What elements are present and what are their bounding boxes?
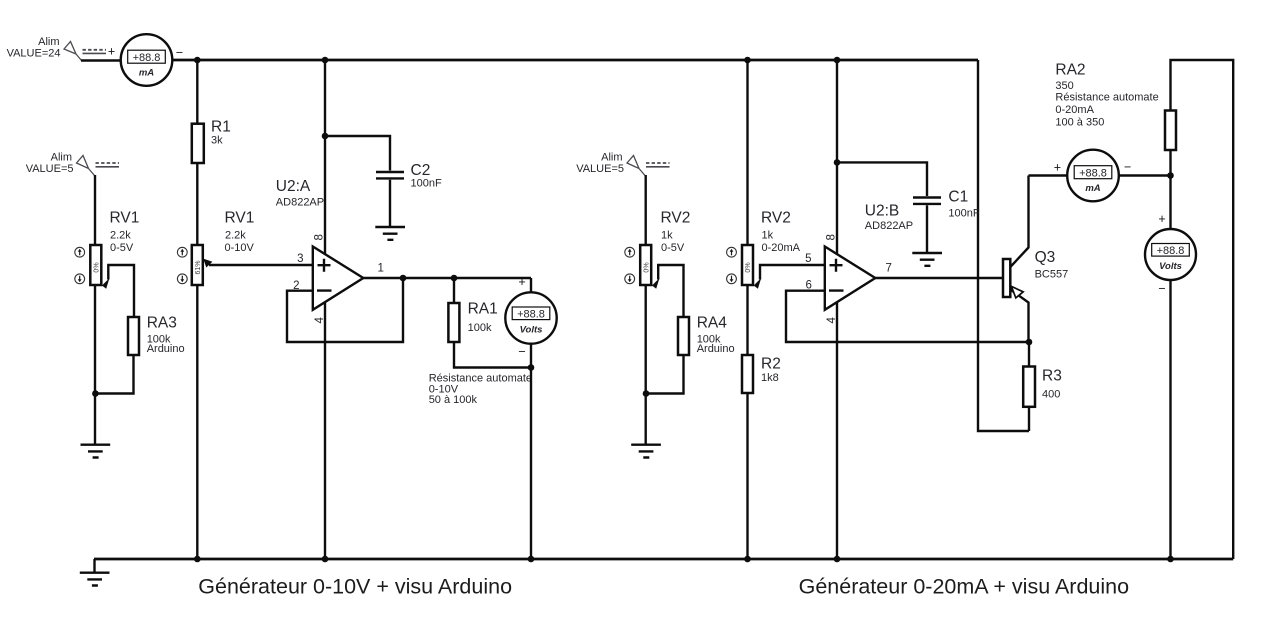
svg-text:Alim: Alim	[38, 36, 59, 48]
svg-text:BC557: BC557	[1035, 269, 1069, 281]
top +24V rail	[172, 59, 978, 62]
wire voltmeter VM1 top	[530, 278, 532, 292]
node junction Q3 emitter / R3 / feedback	[1026, 339, 1033, 346]
voltmeter VM1 (Volts)	[505, 275, 556, 359]
node junction output/RA1	[451, 275, 458, 282]
svg-text:RA2: RA2	[1055, 62, 1085, 79]
wire U2:B supply line	[836, 60, 838, 559]
svg-text:5: 5	[805, 253, 811, 265]
svg-text:1k8: 1k8	[761, 372, 779, 384]
wire R3 bottom	[1028, 407, 1030, 431]
svg-text:1k: 1k	[661, 230, 673, 242]
svg-text:+: +	[1054, 161, 1061, 175]
resistor R3	[1023, 367, 1062, 407]
svg-text:Générateur 0-20mA + visu Ardui: Générateur 0-20mA + visu Arduino	[799, 574, 1130, 598]
svg-text:Arduino: Arduino	[697, 343, 735, 355]
svg-text:3: 3	[297, 253, 303, 265]
resistor RA3	[128, 315, 185, 356]
wire RV2 bottom to ground	[645, 285, 647, 444]
node junction U2:B supply top	[834, 57, 841, 64]
svg-text:RV2: RV2	[661, 210, 691, 227]
svg-text:0%: 0%	[745, 262, 752, 272]
wire RA3 bottom to main branch	[95, 355, 134, 394]
wire RV2 wiper to RA4	[658, 265, 683, 317]
svg-text:Q3: Q3	[1035, 249, 1056, 266]
wire rail end down to R3 bottom	[978, 60, 1029, 431]
resistor RA2	[1055, 62, 1176, 151]
ammeter AM2 (mA)	[1054, 150, 1132, 202]
ground (C2)	[375, 227, 405, 240]
svg-text:4: 4	[314, 317, 326, 324]
svg-text:Volts: Volts	[1159, 261, 1182, 272]
svg-text:1k: 1k	[762, 230, 774, 242]
svg-text:C2: C2	[411, 162, 431, 179]
svg-text:−: −	[1124, 160, 1131, 174]
wire flag to ammeter	[81, 59, 121, 61]
wire R1 branch from rail	[196, 60, 198, 124]
potentiometer RV1 (2.2k 0-5V)	[75, 210, 140, 286]
wire R3 top	[1028, 342, 1030, 367]
resistor RA1	[448, 301, 497, 343]
svg-text:0-5V: 0-5V	[110, 242, 134, 254]
resistor R2	[742, 355, 781, 393]
svg-text:−: −	[1158, 282, 1165, 296]
svg-text:2.2k: 2.2k	[225, 230, 246, 242]
wire ammeter to RA2 node	[1119, 174, 1171, 176]
svg-text:RV1: RV1	[110, 210, 140, 227]
svg-text:VALUE=24: VALUE=24	[7, 48, 61, 60]
svg-text:+88.8: +88.8	[1079, 167, 1107, 179]
label resistance automate 0-10V	[429, 372, 532, 406]
node junction VM1 bottom	[528, 364, 535, 371]
node junction RA2/AM2/VM2	[1167, 172, 1174, 179]
svg-text:RA3: RA3	[147, 315, 177, 332]
resistor R1	[192, 119, 231, 164]
svg-text:VALUE=5: VALUE=5	[576, 163, 624, 175]
svg-text:0-20mA: 0-20mA	[1055, 104, 1094, 116]
svg-text:400: 400	[1042, 389, 1060, 401]
wire Q3 collector to ammeter	[1029, 174, 1068, 176]
svg-text:0-20mA: 0-20mA	[762, 242, 801, 254]
potentiometer RV2 (1k 0-20mA)	[727, 210, 801, 286]
svg-text:−: −	[518, 345, 525, 359]
op-amp U2:A	[276, 178, 384, 324]
power flag Alim VALUE=5 (left)	[26, 152, 119, 176]
svg-text:C1: C1	[948, 189, 968, 206]
wire flag down to RV2	[645, 175, 647, 245]
svg-text:1: 1	[378, 263, 384, 275]
wire RV2 wiper to op-amp pin5	[760, 265, 825, 280]
wire VM2 bottom to ground rail	[1169, 280, 1171, 559]
svg-text:50 à 100k: 50 à 100k	[429, 394, 478, 406]
ground (left RV1 branch)	[81, 445, 111, 458]
svg-text:+: +	[108, 45, 115, 59]
wire C2 tap	[325, 136, 390, 226]
svg-text:Arduino: Arduino	[147, 343, 185, 355]
svg-text:R3: R3	[1042, 368, 1062, 385]
svg-text:AD822AP: AD822AP	[276, 197, 324, 209]
svg-text:RV2: RV2	[761, 210, 791, 227]
wire RV2 bottom to R2	[746, 285, 748, 355]
svg-text:Alim: Alim	[51, 152, 72, 164]
svg-text:RA4: RA4	[697, 315, 728, 332]
wire U2:A pin2 feedback loop	[287, 278, 403, 342]
svg-text:61%: 61%	[195, 260, 202, 274]
node junction rail RV1	[194, 556, 201, 563]
voltmeter VM2 (Volts)	[1145, 212, 1196, 296]
svg-text:0-10V: 0-10V	[225, 242, 255, 254]
svg-text:Résistance automate: Résistance automate	[1055, 92, 1158, 104]
svg-text:100k: 100k	[468, 322, 492, 334]
svg-text:R2: R2	[761, 356, 781, 373]
svg-text:U2:B: U2:B	[865, 203, 899, 220]
node junction rail VM1	[528, 556, 535, 563]
ground (right RV2 branch)	[631, 445, 661, 458]
svg-text:+88.8: +88.8	[517, 309, 545, 321]
svg-text:+: +	[518, 275, 525, 289]
wire flag down to RV1	[94, 175, 96, 245]
wire RV2 branch from rail	[746, 60, 748, 245]
svg-text:4: 4	[826, 317, 838, 324]
wire RV1 wiper to RA3	[108, 265, 134, 317]
svg-text:Volts: Volts	[520, 325, 543, 336]
power flag Alim VALUE=24	[7, 36, 116, 61]
ground (bottom rail)	[80, 559, 110, 586]
wire R2 bottom to ground rail	[746, 393, 748, 559]
node junction C1 tap	[834, 159, 841, 166]
wire RV1 bottom to ground rail	[196, 285, 198, 559]
svg-text:8: 8	[314, 234, 326, 240]
svg-text:350: 350	[1055, 80, 1073, 92]
svg-text:+88.8: +88.8	[133, 52, 161, 64]
svg-text:RA1: RA1	[468, 301, 498, 318]
node junction output/feedback	[400, 275, 407, 282]
svg-text:+88.8: +88.8	[1157, 245, 1185, 257]
wire RV1 wiper to op-amp pin3	[209, 264, 313, 266]
wire RA2 bottom to ammeter node	[1169, 150, 1171, 176]
wire C1 tap	[837, 162, 927, 252]
svg-text:0%: 0%	[643, 262, 650, 272]
wire U2:B pin6 feedback loop	[786, 291, 1029, 342]
wire U2:B output to Q3 base	[875, 277, 1003, 279]
op-amp U2:B	[805, 203, 913, 324]
svg-text:Alim: Alim	[601, 152, 622, 164]
svg-text:8: 8	[826, 234, 838, 240]
wire U2:A supply line	[324, 60, 326, 559]
svg-text:100 à 350: 100 à 350	[1055, 117, 1104, 129]
svg-text:0%: 0%	[94, 262, 101, 272]
wire RA1 top	[453, 278, 455, 303]
svg-text:mA: mA	[139, 68, 154, 79]
node junction RA3/branch	[92, 390, 99, 397]
svg-text:100nF: 100nF	[948, 208, 979, 220]
wire VM2 top	[1169, 176, 1171, 230]
wire U2:A output	[363, 277, 531, 279]
svg-text:AD822AP: AD822AP	[865, 220, 913, 232]
svg-text:Générateur 0-10V + visu Arduin: Générateur 0-10V + visu Arduino	[198, 575, 512, 599]
wire top rail right segment with RA2 drop	[1171, 60, 1234, 559]
transistor Q3 (BC557)	[1003, 176, 1068, 343]
node junction rail R2	[744, 556, 751, 563]
node junction rail U2:A	[322, 556, 329, 563]
capacitor C2	[376, 162, 442, 190]
node junction C2 tap	[322, 133, 329, 140]
node junction RA4/branch	[643, 390, 650, 397]
potentiometer RV1 (2.2k 0-10V)	[177, 210, 254, 286]
node junction rail U2:B	[834, 556, 841, 563]
svg-text:VALUE=5: VALUE=5	[26, 163, 74, 175]
wire RV1 bottom to ground	[94, 285, 96, 444]
svg-text:100nF: 100nF	[411, 178, 442, 190]
resistor RA4	[678, 315, 735, 356]
node junction R1 top	[194, 57, 201, 64]
ammeter AM1 (mA)	[121, 34, 183, 86]
svg-text:+: +	[1158, 212, 1165, 226]
svg-text:2.2k: 2.2k	[110, 230, 131, 242]
svg-text:U2:A: U2:A	[276, 178, 311, 195]
wire RA1 bottom to voltmeter bottom	[454, 342, 531, 368]
ground (C1)	[912, 253, 942, 266]
svg-text:mA: mA	[1085, 183, 1100, 194]
node junction rail VM2	[1167, 556, 1174, 563]
wire RA4 bottom to branch	[645, 355, 684, 394]
svg-text:3k: 3k	[211, 135, 223, 147]
bottom ground rail	[94, 558, 1233, 561]
power flag Alim VALUE=5 (right)	[576, 152, 669, 176]
svg-text:7: 7	[886, 263, 892, 275]
node junction RV2 top	[744, 57, 751, 64]
wire VM1 bottom to ground rail	[530, 344, 532, 559]
capacitor C1	[913, 189, 980, 220]
svg-text:0-5V: 0-5V	[661, 242, 685, 254]
node junction U2:A supply top	[322, 57, 329, 64]
svg-text:−: −	[176, 46, 183, 60]
potentiometer RV2 (1k 0-5V)	[625, 210, 691, 286]
svg-text:R1: R1	[211, 119, 231, 136]
wire R1 to RV1	[196, 163, 198, 245]
svg-text:RV1: RV1	[225, 210, 255, 227]
